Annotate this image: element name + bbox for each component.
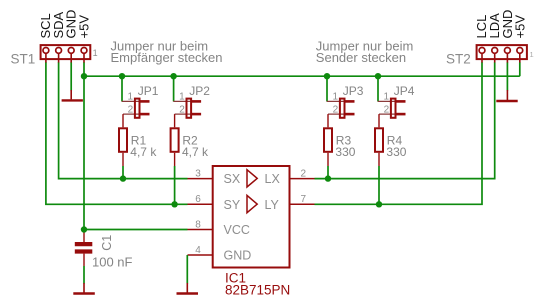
wire R1 to SX net bbox=[122, 153, 124, 166]
svg-text:2: 2 bbox=[301, 168, 307, 179]
IC1 pin 2 stub bbox=[290, 178, 315, 180]
svg-text:+5V: +5V bbox=[512, 15, 527, 39]
svg-text:ST1: ST1 bbox=[11, 51, 36, 66]
wire JP4 to R4 bbox=[378, 114, 380, 127]
svg-text:JP2: JP2 bbox=[189, 84, 210, 98]
node junction R3 LX bbox=[325, 175, 331, 181]
svg-text:SX: SX bbox=[224, 172, 241, 186]
wire rail to JP2 bbox=[173, 76, 175, 101]
IC1 pin 3 stub bbox=[188, 178, 213, 180]
node junction rail JP4 bbox=[375, 73, 381, 79]
node junction R1 SX bbox=[120, 175, 126, 181]
wire JP1 to R1 bbox=[122, 114, 124, 127]
wire R4 to LY net bbox=[378, 153, 380, 166]
node junction rail JP3 bbox=[324, 73, 330, 79]
svg-text:4: 4 bbox=[195, 245, 201, 256]
svg-text:GND: GND bbox=[224, 249, 252, 263]
ground under C1 bbox=[73, 283, 95, 294]
svg-text:7: 7 bbox=[301, 194, 307, 205]
wire ST2 GND drop bbox=[506, 63, 508, 91]
jumper JP2 bbox=[173, 99, 201, 118]
svg-text:1: 1 bbox=[530, 50, 534, 59]
svg-text:LX: LX bbox=[265, 172, 281, 186]
svg-text:2: 2 bbox=[384, 104, 390, 115]
node junction rail JP1 bbox=[119, 73, 125, 79]
svg-text:C1: C1 bbox=[100, 235, 114, 251]
svg-text:330: 330 bbox=[386, 145, 406, 159]
wire rail to JP4 bbox=[377, 76, 379, 101]
svg-text:1: 1 bbox=[384, 91, 390, 102]
svg-text:ST2: ST2 bbox=[446, 51, 471, 66]
IC1 pin 8 stub bbox=[188, 229, 213, 231]
op-amp buffer IC1 bbox=[188, 166, 315, 268]
svg-text:100 nF: 100 nF bbox=[92, 255, 133, 270]
svg-text:2: 2 bbox=[333, 104, 339, 115]
IC1 pin 6 stub bbox=[188, 203, 213, 205]
wire +5V rail bbox=[84, 75, 520, 77]
wire SDA to IC pin 3 bbox=[59, 63, 188, 179]
connector ST2 bbox=[477, 45, 527, 63]
IC1 buffer triangle Y bbox=[247, 195, 257, 212]
wire rail to JP3 bbox=[326, 76, 328, 101]
wire IC pin 7 to LCL bbox=[315, 63, 483, 205]
ground under ST1 bbox=[62, 90, 83, 100]
wire rail to JP1 bbox=[121, 76, 123, 101]
resistor R3 bbox=[324, 128, 332, 152]
svg-text:4,7 k: 4,7 k bbox=[130, 145, 157, 159]
wire C1 to ground bbox=[83, 266, 85, 284]
svg-text:JP4: JP4 bbox=[394, 84, 415, 98]
svg-text:3: 3 bbox=[195, 168, 201, 179]
svg-text:SY: SY bbox=[224, 198, 241, 212]
resistor R2 bbox=[171, 128, 179, 152]
svg-text:82B715PN: 82B715PN bbox=[225, 283, 290, 298]
svg-text:1: 1 bbox=[333, 91, 339, 102]
wire IC pin 2 to LDA bbox=[315, 63, 495, 179]
svg-text:Empfänger stecken: Empfänger stecken bbox=[111, 50, 223, 65]
wire ST1 GND drop bbox=[70, 63, 72, 91]
node junction VCC C1 bbox=[81, 226, 87, 232]
wire JP2 to R2 bbox=[174, 114, 176, 127]
IC1 buffer triangle X bbox=[247, 170, 257, 187]
svg-text:LY: LY bbox=[265, 198, 280, 212]
wire VCC bbox=[84, 229, 188, 231]
svg-text:330: 330 bbox=[335, 145, 355, 159]
svg-text:1: 1 bbox=[128, 91, 134, 102]
capacitor C1 bbox=[75, 230, 93, 267]
ground under ST2 bbox=[496, 90, 517, 101]
node junction R4 LY bbox=[376, 201, 382, 207]
svg-text:1: 1 bbox=[93, 48, 98, 58]
svg-text:Sender stecken: Sender stecken bbox=[316, 50, 406, 65]
svg-text:+5V: +5V bbox=[76, 15, 91, 39]
jumper JP3 bbox=[327, 99, 355, 118]
resistor R4 bbox=[375, 128, 383, 152]
svg-text:6: 6 bbox=[195, 194, 201, 205]
wire ST2 +5V vertical bbox=[519, 63, 521, 77]
svg-text:2: 2 bbox=[179, 104, 185, 115]
wire SCL to IC pin 6 bbox=[46, 63, 188, 205]
jumper JP4 bbox=[378, 99, 406, 118]
svg-text:VCC: VCC bbox=[224, 223, 250, 237]
svg-text:JP3: JP3 bbox=[343, 84, 364, 98]
wire ST1 +5V vertical bbox=[83, 63, 85, 230]
node junction rail JP2 bbox=[170, 73, 176, 79]
jumper JP1 bbox=[122, 99, 150, 118]
svg-text:2: 2 bbox=[128, 104, 134, 115]
node junction R2 SY bbox=[171, 201, 177, 207]
IC1 pin 4 stub bbox=[188, 254, 213, 256]
ground under IC1 bbox=[177, 283, 199, 294]
svg-text:JP1: JP1 bbox=[138, 84, 159, 98]
wire JP3 to R3 bbox=[327, 114, 329, 127]
node junction +5V at ST1 column bbox=[81, 73, 87, 79]
svg-text:4,7 k: 4,7 k bbox=[182, 145, 209, 159]
wire R2 to SY net bbox=[174, 153, 176, 166]
wire IC GND down bbox=[186, 255, 188, 284]
svg-text:8: 8 bbox=[195, 219, 201, 230]
svg-text:1: 1 bbox=[179, 91, 185, 102]
wire R3 to LX net bbox=[327, 153, 329, 166]
resistor R1 bbox=[119, 128, 127, 152]
connector ST1 bbox=[41, 45, 91, 63]
IC1 pin 7 stub bbox=[290, 203, 315, 205]
